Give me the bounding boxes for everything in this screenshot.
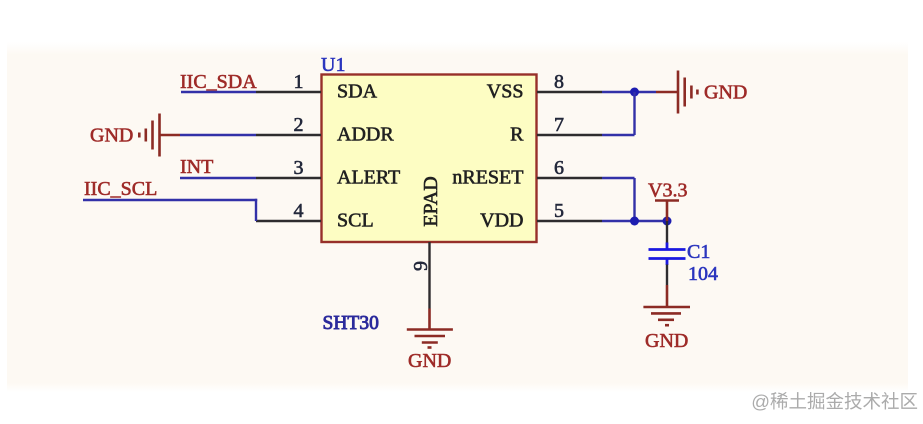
pin 3 stub [256, 177, 321, 179]
pin 6 stub [537, 177, 602, 179]
wire pin 7 vertical [633, 92, 635, 135]
wire IIC_SDA to pin 1 [181, 91, 256, 93]
svg-text:@稀土掘金技术社区: @稀土掘金技术社区 [751, 391, 918, 412]
pin 7 stub [537, 134, 602, 136]
junction dot pin5 [630, 217, 639, 226]
svg-text:9: 9 [410, 261, 432, 271]
power ground symbol left (rotated) [139, 114, 180, 157]
junction dot V3.3 [663, 217, 672, 226]
wire INT to pin 3 [180, 177, 256, 179]
svg-text:7: 7 [554, 114, 564, 136]
ground symbol bottom right [643, 307, 690, 325]
ground stem right [656, 91, 678, 94]
wire IIC_SCL vertical [255, 199, 257, 221]
svg-text:SCL: SCL [337, 210, 374, 232]
svg-text:VSS: VSS [487, 81, 524, 103]
svg-text:nRESET: nRESET [452, 167, 523, 189]
power ground symbol right (rotated) [678, 71, 697, 114]
pin 2 stub [256, 134, 321, 136]
svg-text:R: R [510, 124, 524, 146]
svg-text:8: 8 [554, 71, 564, 93]
svg-text:ALERT: ALERT [337, 167, 400, 189]
svg-text:IIC_SDA: IIC_SDA [180, 71, 257, 93]
IC U1 body [322, 75, 537, 243]
svg-text:INT: INT [180, 156, 213, 178]
wire pin 8 to GND [602, 91, 656, 93]
ground symbol bottom center [407, 330, 453, 348]
power symbol V3.3 [655, 201, 679, 222]
svg-text:6: 6 [554, 157, 564, 179]
wire V3.3 junction to C1 [666, 221, 668, 244]
wire pin 5 to V3.3 [602, 220, 667, 222]
svg-text:V3.3: V3.3 [648, 180, 687, 202]
svg-text:GND: GND [90, 125, 133, 147]
svg-text:GND: GND [645, 330, 688, 352]
svg-text:VDD: VDD [480, 210, 523, 232]
pin 8 stub [537, 91, 602, 93]
wire IIC_SCL horizontal [83, 199, 257, 201]
svg-text:GND: GND [408, 350, 451, 372]
pin 1 stub [256, 91, 321, 93]
pin 5 stub [537, 220, 602, 222]
wire pin 6 vertical [633, 178, 635, 221]
svg-text:EPAD: EPAD [420, 176, 442, 226]
svg-text:U1: U1 [321, 54, 345, 76]
wire C1 to GND [666, 265, 668, 286]
wire pin 6 horizontal [602, 177, 635, 179]
svg-text:104: 104 [688, 263, 718, 285]
svg-text:GND: GND [704, 82, 747, 104]
pin 9 stub [428, 242, 430, 309]
junction dot pin8 [630, 88, 639, 97]
ground stem bottom center [428, 309, 431, 330]
svg-text:2: 2 [294, 114, 304, 136]
svg-text:3: 3 [294, 157, 304, 179]
svg-text:5: 5 [554, 200, 564, 222]
svg-text:IIC_SCL: IIC_SCL [84, 178, 157, 200]
ground stem bottom right [666, 285, 669, 307]
pin 4 stub [256, 220, 321, 222]
wire GND to pin 2 [180, 134, 256, 136]
svg-text:C1: C1 [687, 241, 710, 263]
wire pin 7 horizontal [602, 134, 635, 136]
svg-text:1: 1 [294, 71, 304, 93]
svg-text:ADDR: ADDR [337, 124, 394, 146]
svg-text:4: 4 [294, 200, 304, 222]
capacitor C1 [649, 243, 686, 266]
svg-text:SDA: SDA [337, 81, 378, 103]
svg-text:SHT30: SHT30 [323, 313, 379, 334]
